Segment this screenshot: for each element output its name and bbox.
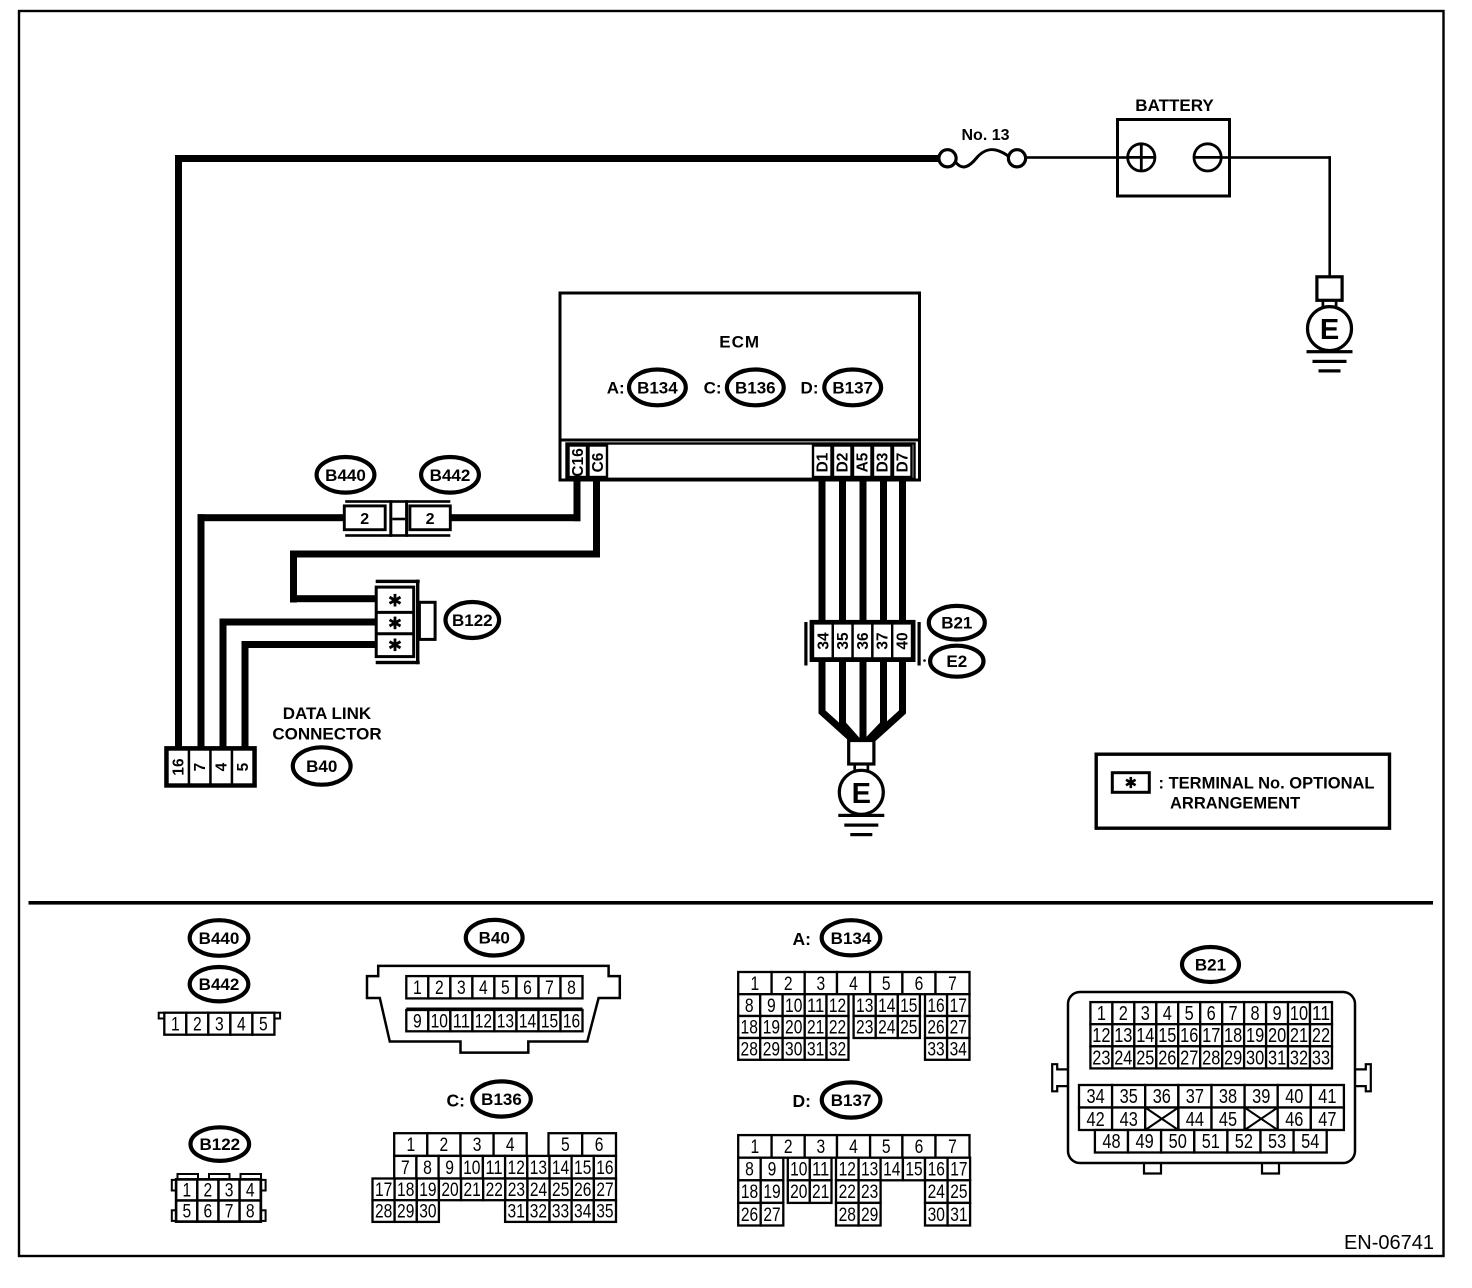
svg-text:40: 40 — [1285, 1086, 1303, 1108]
svg-text:A:: A: — [793, 929, 811, 949]
svg-text:3: 3 — [215, 1014, 224, 1035]
svg-text:B442: B442 — [430, 466, 471, 485]
svg-text:9: 9 — [1273, 1003, 1282, 1025]
svg-text:34: 34 — [950, 1040, 968, 1061]
svg-text:20: 20 — [790, 1182, 807, 1203]
svg-text:5: 5 — [882, 974, 891, 995]
svg-text:1: 1 — [751, 1137, 760, 1158]
svg-text:B134: B134 — [831, 929, 872, 948]
svg-text:1: 1 — [413, 978, 422, 999]
svg-text:37: 37 — [1186, 1086, 1204, 1108]
svg-text:11: 11 — [453, 1011, 470, 1032]
svg-text:16: 16 — [563, 1011, 580, 1032]
svg-text:1: 1 — [406, 1135, 415, 1156]
svg-text:24: 24 — [878, 1018, 896, 1039]
svg-text:4: 4 — [849, 1137, 858, 1158]
svg-text:8: 8 — [567, 978, 576, 999]
svg-text:CONNECTOR: CONNECTOR — [272, 724, 381, 743]
svg-text:12: 12 — [475, 1011, 492, 1032]
svg-text:26: 26 — [574, 1180, 591, 1201]
svg-text:25: 25 — [900, 1018, 917, 1039]
svg-text:D:: D: — [793, 1091, 811, 1111]
svg-text:2: 2 — [204, 1181, 213, 1202]
svg-text:31: 31 — [950, 1205, 967, 1226]
svg-text:12: 12 — [829, 996, 846, 1017]
svg-text:B136: B136 — [481, 1090, 522, 1109]
svg-text:26: 26 — [927, 1018, 944, 1039]
svg-text:29: 29 — [861, 1205, 878, 1226]
svg-text:12: 12 — [839, 1160, 856, 1181]
svg-text:BATTERY: BATTERY — [1135, 96, 1214, 115]
svg-text:29: 29 — [763, 1040, 780, 1061]
svg-text:43: 43 — [1120, 1109, 1138, 1131]
svg-text:3: 3 — [457, 978, 466, 999]
svg-text:31: 31 — [1268, 1047, 1286, 1069]
svg-text:3: 3 — [1141, 1003, 1150, 1025]
svg-text:No. 13: No. 13 — [961, 127, 1009, 144]
svg-text:18: 18 — [741, 1182, 758, 1203]
svg-text:5: 5 — [561, 1135, 570, 1156]
svg-text:4: 4 — [849, 974, 858, 995]
svg-text:51: 51 — [1202, 1131, 1220, 1153]
svg-text:B21: B21 — [1195, 956, 1226, 975]
svg-text:25: 25 — [950, 1182, 967, 1203]
svg-text:17: 17 — [375, 1180, 392, 1201]
svg-text:B136: B136 — [735, 378, 776, 397]
svg-text:13: 13 — [530, 1158, 547, 1179]
svg-text:4: 4 — [214, 762, 231, 771]
svg-text:B440: B440 — [199, 929, 240, 948]
svg-text:C:: C: — [447, 1091, 465, 1111]
svg-text:10: 10 — [785, 996, 802, 1017]
svg-text:E: E — [852, 778, 871, 810]
svg-text:25: 25 — [552, 1180, 569, 1201]
svg-text:13: 13 — [861, 1160, 878, 1181]
svg-text:12: 12 — [1092, 1025, 1110, 1047]
svg-text:19: 19 — [419, 1180, 436, 1201]
svg-text:4: 4 — [246, 1181, 255, 1202]
svg-text:6: 6 — [1207, 1003, 1216, 1025]
svg-text:11: 11 — [807, 996, 824, 1017]
svg-text:ARRANGEMENT: ARRANGEMENT — [1170, 795, 1300, 813]
svg-text:26: 26 — [741, 1205, 758, 1226]
svg-text:35: 35 — [835, 632, 852, 650]
svg-text:35: 35 — [1120, 1086, 1138, 1108]
svg-text:28: 28 — [839, 1205, 856, 1226]
svg-text:30: 30 — [928, 1205, 945, 1226]
svg-text:30: 30 — [785, 1040, 802, 1061]
svg-text:10: 10 — [463, 1158, 480, 1179]
svg-text:B122: B122 — [452, 611, 493, 630]
svg-text:D1: D1 — [815, 452, 832, 472]
svg-text:4: 4 — [1163, 1003, 1172, 1025]
svg-text:29: 29 — [1224, 1047, 1242, 1069]
svg-text:D3: D3 — [875, 452, 892, 472]
svg-text:8: 8 — [423, 1158, 432, 1179]
svg-text:1: 1 — [171, 1014, 180, 1035]
svg-text:50: 50 — [1169, 1131, 1187, 1153]
svg-text:7: 7 — [545, 978, 554, 999]
svg-text:6: 6 — [915, 1137, 924, 1158]
svg-text:B40: B40 — [306, 757, 337, 776]
svg-text:28: 28 — [375, 1202, 392, 1223]
svg-text:46: 46 — [1285, 1109, 1303, 1131]
svg-text:16: 16 — [596, 1158, 613, 1179]
svg-text:D7: D7 — [895, 453, 912, 473]
svg-text:44: 44 — [1186, 1109, 1204, 1131]
svg-text:23: 23 — [1092, 1047, 1110, 1069]
svg-text:17: 17 — [950, 996, 967, 1017]
svg-text:7: 7 — [948, 974, 957, 995]
svg-text:14: 14 — [519, 1011, 537, 1032]
svg-text:18: 18 — [397, 1180, 414, 1201]
svg-text:32: 32 — [1290, 1047, 1308, 1069]
svg-text:5: 5 — [882, 1137, 891, 1158]
svg-text:6: 6 — [915, 974, 924, 995]
svg-text:13: 13 — [1114, 1025, 1132, 1047]
svg-text:11: 11 — [812, 1160, 829, 1181]
svg-text:12: 12 — [508, 1158, 525, 1179]
svg-text:5: 5 — [501, 978, 510, 999]
svg-text:52: 52 — [1235, 1131, 1253, 1153]
svg-text:4: 4 — [506, 1135, 515, 1156]
svg-text:15: 15 — [900, 996, 917, 1017]
svg-text:9: 9 — [768, 1160, 777, 1181]
svg-text:32: 32 — [829, 1040, 846, 1061]
svg-text:26: 26 — [1158, 1047, 1176, 1069]
svg-text:25: 25 — [1136, 1047, 1154, 1069]
svg-text:14: 14 — [883, 1160, 901, 1181]
svg-text:A:: A: — [607, 379, 625, 398]
svg-text:10: 10 — [431, 1011, 448, 1032]
svg-text:39: 39 — [1252, 1086, 1270, 1108]
svg-text:3: 3 — [473, 1135, 482, 1156]
svg-text:16: 16 — [928, 1160, 945, 1181]
svg-text:40: 40 — [895, 632, 912, 649]
svg-text:6: 6 — [523, 978, 532, 999]
svg-text:4: 4 — [237, 1014, 246, 1035]
svg-text:2: 2 — [1119, 1003, 1128, 1025]
svg-text:53: 53 — [1268, 1131, 1286, 1153]
svg-text:42: 42 — [1087, 1109, 1105, 1131]
svg-text:2: 2 — [193, 1014, 202, 1035]
svg-text:37: 37 — [875, 632, 892, 649]
svg-text:27: 27 — [1180, 1047, 1198, 1069]
svg-text:23: 23 — [861, 1182, 878, 1203]
svg-text:22: 22 — [1312, 1025, 1330, 1047]
svg-text:23: 23 — [856, 1018, 873, 1039]
svg-text:7: 7 — [192, 763, 209, 772]
svg-text:17: 17 — [1202, 1025, 1220, 1047]
svg-text:8: 8 — [745, 1160, 754, 1181]
svg-text:49: 49 — [1136, 1131, 1154, 1153]
svg-text:36: 36 — [1153, 1086, 1171, 1108]
svg-text:B137: B137 — [832, 378, 873, 397]
svg-text:23: 23 — [508, 1180, 525, 1201]
svg-text:28: 28 — [1202, 1047, 1220, 1069]
svg-text:48: 48 — [1102, 1131, 1120, 1153]
svg-text:24: 24 — [530, 1180, 548, 1201]
svg-text:3: 3 — [817, 974, 826, 995]
svg-text:B442: B442 — [199, 975, 240, 994]
svg-text:13: 13 — [856, 996, 873, 1017]
svg-text:1: 1 — [1097, 1003, 1106, 1025]
svg-text:2: 2 — [784, 974, 793, 995]
svg-text:36: 36 — [855, 632, 872, 650]
svg-text:11: 11 — [1312, 1003, 1330, 1025]
svg-text:19: 19 — [763, 1182, 780, 1203]
svg-text:3: 3 — [225, 1181, 234, 1202]
svg-text:11: 11 — [485, 1158, 502, 1179]
svg-text:8: 8 — [1251, 1003, 1260, 1025]
svg-text:EN-06741: EN-06741 — [1344, 1232, 1434, 1254]
svg-text:34: 34 — [1087, 1086, 1105, 1108]
svg-text:5: 5 — [259, 1014, 268, 1035]
svg-text:B134: B134 — [637, 378, 678, 397]
svg-text:21: 21 — [812, 1182, 829, 1203]
svg-text:21: 21 — [807, 1018, 824, 1039]
svg-text:14: 14 — [878, 996, 896, 1017]
svg-text:2: 2 — [435, 978, 444, 999]
svg-text:15: 15 — [905, 1160, 922, 1181]
svg-text:32: 32 — [530, 1202, 547, 1223]
svg-text:33: 33 — [1312, 1047, 1330, 1069]
svg-text:E: E — [1320, 314, 1339, 346]
svg-text:DATA LINK: DATA LINK — [283, 704, 372, 723]
svg-text:28: 28 — [741, 1040, 758, 1061]
svg-text:22: 22 — [839, 1182, 856, 1203]
svg-text:5: 5 — [235, 762, 252, 771]
svg-text:18: 18 — [1224, 1025, 1242, 1047]
svg-text:B122: B122 — [199, 1135, 240, 1154]
svg-text:29: 29 — [397, 1202, 414, 1223]
svg-text:15: 15 — [541, 1011, 558, 1032]
svg-text:7: 7 — [948, 1137, 957, 1158]
svg-text:22: 22 — [486, 1180, 503, 1201]
svg-text:27: 27 — [763, 1205, 780, 1226]
svg-text:17: 17 — [950, 1160, 967, 1181]
svg-text:35: 35 — [596, 1202, 613, 1223]
svg-text:33: 33 — [927, 1040, 944, 1061]
svg-text:54: 54 — [1301, 1131, 1319, 1153]
svg-text:45: 45 — [1219, 1109, 1237, 1131]
svg-text:B440: B440 — [325, 466, 366, 485]
svg-text:B137: B137 — [831, 1091, 872, 1110]
svg-text:5: 5 — [1185, 1003, 1194, 1025]
svg-text:5: 5 — [182, 1202, 191, 1223]
svg-text:16: 16 — [171, 758, 188, 776]
svg-text:10: 10 — [790, 1160, 807, 1181]
svg-text:15: 15 — [574, 1158, 591, 1179]
svg-text:34: 34 — [815, 632, 832, 650]
svg-text:9: 9 — [445, 1158, 454, 1179]
svg-text:8: 8 — [745, 996, 754, 1017]
svg-text:21: 21 — [1290, 1025, 1308, 1047]
svg-text:1: 1 — [182, 1181, 191, 1202]
svg-text:D:: D: — [801, 379, 819, 398]
svg-text:16: 16 — [927, 996, 944, 1017]
svg-text:18: 18 — [741, 1018, 758, 1039]
svg-text:30: 30 — [419, 1202, 436, 1223]
svg-text:B40: B40 — [479, 929, 510, 948]
svg-text:27: 27 — [950, 1018, 967, 1039]
svg-text:41: 41 — [1318, 1086, 1336, 1108]
svg-text:1: 1 — [751, 974, 760, 995]
svg-text:34: 34 — [574, 1202, 592, 1223]
svg-text:B21: B21 — [941, 614, 972, 633]
svg-text:6: 6 — [204, 1202, 213, 1223]
svg-text:A5: A5 — [855, 452, 872, 472]
svg-text:ECM: ECM — [719, 333, 760, 352]
svg-text:33: 33 — [552, 1202, 569, 1223]
svg-text:8: 8 — [246, 1202, 255, 1223]
svg-text:31: 31 — [508, 1202, 525, 1223]
svg-text:14: 14 — [552, 1158, 570, 1179]
svg-text:24: 24 — [928, 1182, 946, 1203]
svg-text:D2: D2 — [835, 453, 852, 473]
svg-text:22: 22 — [829, 1018, 846, 1039]
svg-text:13: 13 — [497, 1011, 514, 1032]
svg-text:9: 9 — [413, 1011, 422, 1032]
svg-text:19: 19 — [1246, 1025, 1264, 1047]
svg-text:7: 7 — [1229, 1003, 1238, 1025]
svg-text:24: 24 — [1114, 1047, 1132, 1069]
svg-text:C:: C: — [704, 379, 722, 398]
svg-text:C16: C16 — [570, 448, 587, 477]
svg-text:38: 38 — [1219, 1086, 1237, 1108]
svg-text:7: 7 — [225, 1202, 234, 1223]
svg-text:19: 19 — [763, 1018, 780, 1039]
svg-text:15: 15 — [1158, 1025, 1176, 1047]
svg-text:16: 16 — [1180, 1025, 1198, 1047]
svg-text:30: 30 — [1246, 1047, 1264, 1069]
svg-text:: TERMINAL No. OPTIONAL: : TERMINAL No. OPTIONAL — [1159, 774, 1375, 792]
svg-text:31: 31 — [807, 1040, 824, 1061]
svg-text:6: 6 — [595, 1135, 604, 1156]
svg-text:47: 47 — [1318, 1109, 1336, 1131]
svg-text:20: 20 — [1268, 1025, 1286, 1047]
svg-text:21: 21 — [463, 1180, 480, 1201]
svg-text:2: 2 — [360, 511, 369, 528]
svg-text:14: 14 — [1136, 1025, 1154, 1047]
svg-text:2: 2 — [784, 1137, 793, 1158]
svg-text:3: 3 — [817, 1137, 826, 1158]
svg-text:20: 20 — [785, 1018, 802, 1039]
svg-text:2: 2 — [426, 511, 435, 528]
svg-text:7: 7 — [401, 1158, 410, 1179]
svg-text:9: 9 — [767, 996, 776, 1017]
svg-text:10: 10 — [1290, 1003, 1308, 1025]
svg-text:4: 4 — [479, 978, 488, 999]
svg-text:C6: C6 — [590, 452, 607, 472]
svg-text:20: 20 — [441, 1180, 458, 1201]
svg-text:27: 27 — [596, 1180, 613, 1201]
svg-text:E2: E2 — [946, 652, 967, 671]
svg-text:2: 2 — [440, 1135, 449, 1156]
